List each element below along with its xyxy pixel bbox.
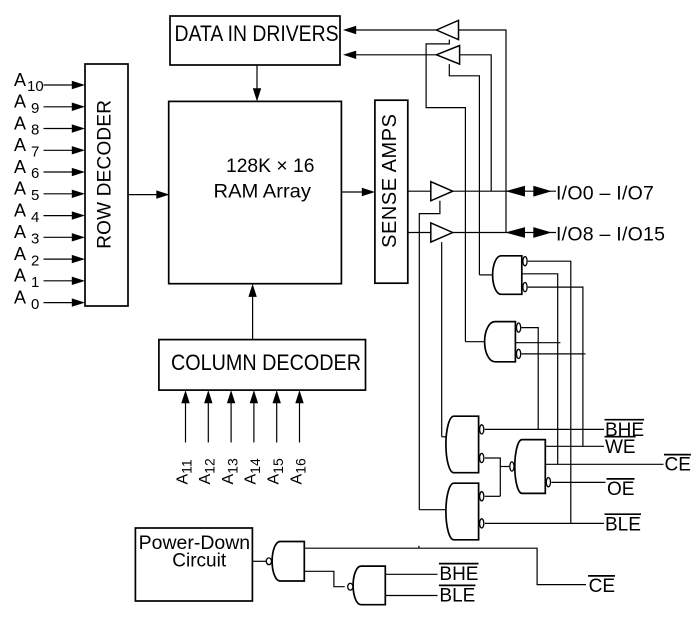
svg-text:A: A — [14, 157, 26, 177]
svg-text:A: A — [14, 200, 26, 220]
svg-text:A: A — [14, 222, 26, 242]
svg-text:5: 5 — [31, 187, 39, 204]
svg-text:OE: OE — [607, 479, 634, 500]
svg-text:8: 8 — [31, 122, 39, 139]
svg-text:10: 10 — [27, 78, 44, 95]
svg-text:128K × 16: 128K × 16 — [226, 156, 314, 177]
svg-text:A: A — [14, 244, 26, 264]
svg-text:6: 6 — [31, 165, 39, 182]
svg-text:BHE: BHE — [439, 564, 478, 585]
svg-text:I/O8 – I/O15: I/O8 – I/O15 — [556, 224, 665, 246]
svg-text:DATA IN DRIVERS: DATA IN DRIVERS — [175, 21, 339, 46]
svg-text:COLUMN DECODER: COLUMN DECODER — [171, 350, 361, 375]
svg-text:4: 4 — [31, 209, 39, 226]
svg-text:3: 3 — [31, 231, 39, 248]
svg-text:Circuit: Circuit — [172, 550, 227, 571]
svg-text:I/O0 – I/O7: I/O0 – I/O7 — [556, 182, 654, 204]
svg-text:1: 1 — [31, 274, 39, 291]
svg-text:A: A — [14, 179, 26, 199]
svg-text:A: A — [14, 70, 26, 90]
svg-text:A: A — [14, 135, 26, 155]
svg-text:BLE: BLE — [439, 586, 475, 607]
svg-text:9: 9 — [31, 100, 39, 117]
svg-text:0: 0 — [31, 296, 39, 313]
svg-text:CE: CE — [665, 455, 691, 476]
svg-text:2: 2 — [31, 252, 39, 269]
svg-text:A: A — [14, 92, 26, 112]
svg-text:RAM Array: RAM Array — [214, 182, 312, 203]
svg-text:SENSE AMPS: SENSE AMPS — [379, 113, 401, 247]
svg-text:A: A — [14, 266, 26, 286]
svg-text:WE: WE — [605, 437, 636, 458]
svg-text:CE: CE — [589, 576, 615, 597]
svg-text:7: 7 — [31, 143, 39, 160]
svg-text:A: A — [14, 113, 26, 133]
svg-text:A: A — [14, 288, 26, 308]
svg-text:BLE: BLE — [605, 514, 641, 535]
svg-text:ROW DECODER: ROW DECODER — [94, 100, 115, 249]
